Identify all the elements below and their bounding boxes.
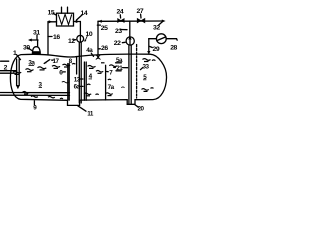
svg-text:20: 20 bbox=[138, 106, 145, 113]
svg-text:11: 11 bbox=[87, 111, 94, 118]
svg-text:4a: 4a bbox=[86, 47, 93, 54]
svg-text:16: 16 bbox=[53, 34, 60, 41]
svg-text:12: 12 bbox=[68, 38, 75, 45]
svg-text:33: 33 bbox=[143, 63, 150, 70]
svg-text:15: 15 bbox=[48, 10, 55, 17]
svg-text:17: 17 bbox=[53, 58, 60, 65]
svg-text:10: 10 bbox=[86, 31, 93, 38]
svg-text:30: 30 bbox=[23, 44, 30, 51]
svg-text:14: 14 bbox=[81, 10, 88, 17]
svg-text:23: 23 bbox=[115, 28, 122, 35]
svg-text:7a: 7a bbox=[108, 84, 115, 91]
svg-text:13: 13 bbox=[74, 76, 81, 83]
svg-text:22: 22 bbox=[114, 40, 121, 47]
svg-text:26: 26 bbox=[101, 45, 108, 52]
svg-text:5a: 5a bbox=[116, 57, 123, 64]
svg-text:28: 28 bbox=[170, 45, 177, 52]
svg-text:21: 21 bbox=[116, 65, 123, 72]
svg-text:6a: 6a bbox=[74, 83, 81, 90]
svg-text:25: 25 bbox=[101, 25, 108, 32]
svg-text:31: 31 bbox=[33, 30, 40, 37]
svg-text:29: 29 bbox=[153, 46, 160, 53]
svg-text:27: 27 bbox=[137, 8, 144, 15]
svg-text:32: 32 bbox=[153, 25, 160, 32]
svg-text:24: 24 bbox=[117, 9, 124, 16]
